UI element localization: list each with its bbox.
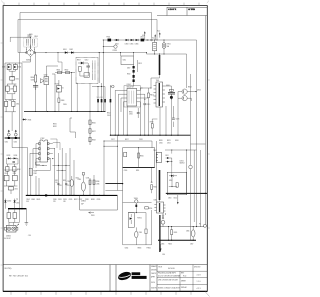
svg-text:J 80: J 80 [162, 254, 165, 256]
snubber parts [77, 60, 95, 80]
varistor VA801 [115, 39, 125, 46]
svg-text:C833: C833 [63, 199, 67, 201]
svg-text:D851: D851 [165, 155, 169, 157]
svg-text:APPR: APPR [151, 275, 155, 278]
svg-text:R807: R807 [77, 60, 81, 62]
net flag AC1 arrow [157, 29, 160, 37]
svg-text:1 1 0: 1 1 0 [197, 281, 201, 283]
svg-text:RT801: RT801 [113, 50, 118, 52]
svg-text:D810: D810 [175, 140, 179, 142]
standby ground bus [158, 227, 196, 241]
rectifier D860 circle [160, 213, 204, 227]
svg-text:RY850: RY850 [137, 217, 141, 219]
svg-text:C865: C865 [161, 243, 165, 245]
LF801 windings [26, 34, 34, 46]
title block outline [3, 265, 207, 292]
Samsung Electro-Mechanics logo [117, 270, 147, 281]
right long verticals [187, 144, 201, 240]
svg-text:C818: C818 [139, 139, 143, 141]
svg-text:D835: D835 [16, 203, 20, 205]
diode D803 [125, 39, 130, 46]
revision table (top right) [167, 7, 207, 15]
svg-text:R856: R856 [149, 208, 153, 210]
svg-text:F801: F801 [107, 37, 111, 39]
svg-text:R827: R827 [92, 131, 96, 133]
svg-text:DESIGN: DESIGN [151, 270, 156, 272]
transformer T802 body [154, 202, 165, 213]
thermistor RT801 [103, 40, 117, 53]
svg-text:C835: C835 [69, 199, 73, 201]
capacitor marks mid rails [57, 184, 67, 185]
svg-text:D803: D803 [125, 43, 129, 45]
svg-text:CN801: CN801 [81, 201, 86, 203]
svg-text:D802: D802 [115, 43, 119, 45]
labels mid texts [53, 104, 67, 128]
svg-text:Q802: Q802 [197, 90, 201, 92]
start resistor chain [58, 53, 90, 112]
capacitor C804 label [27, 34, 38, 37]
svg-text:C856: C856 [13, 173, 17, 175]
IC802 wiring left [30, 144, 39, 169]
svg-text:DC-DV/ S.M CIRCUIT DIAGRAM: DC-DV/ S.M CIRCUIT DIAGRAM [158, 275, 181, 278]
svg-text:R826: R826 [92, 122, 96, 124]
capacitor C816 [137, 108, 140, 118]
choke L831 [8, 187, 18, 194]
svg-text:C821: C821 [167, 142, 171, 144]
shunt regulator IC802 KA431 [39, 138, 49, 162]
wire bridge feed [10, 37, 34, 50]
svg-text:PC801: PC801 [55, 83, 60, 85]
svg-text:C851: C851 [16, 103, 20, 105]
svg-text:R834: R834 [17, 169, 21, 171]
wire output bus to opto [12, 139, 28, 148]
resistor pads row [97, 97, 112, 102]
svg-text:C838: C838 [85, 199, 89, 201]
svg-text:C852: C852 [5, 141, 9, 143]
wire bridge DC+ output [18, 45, 64, 62]
svg-text:R817: R817 [125, 139, 129, 141]
labels under opto bus [26, 199, 40, 203]
svg-text:R828: R828 [92, 140, 96, 142]
border tick marks left [1, 1, 4, 266]
svg-text:R865: R865 [174, 232, 178, 234]
svg-text:C850: C850 [9, 100, 13, 102]
wire aux feed [103, 141, 152, 196]
svg-text:C836: C836 [96, 183, 100, 185]
svg-text:SIZE A4: SIZE A4 [181, 286, 187, 289]
wire AC lower run [155, 54, 187, 89]
svg-text:C864: C864 [125, 248, 129, 250]
wire T801 primary connections [140, 40, 164, 89]
svg-text:R843: R843 [31, 199, 35, 201]
svg-text:MODEL/ CGN5407L SCALE/ NS: MODEL/ CGN5407L SCALE/ NS [158, 287, 180, 290]
svg-text:R83: R83 [55, 180, 58, 182]
capacitor C823 [150, 118, 180, 135]
svg-text:C832: C832 [67, 181, 71, 183]
svg-text:D801: D801 [63, 49, 67, 51]
varistor VA801 [153, 40, 157, 54]
svg-text:A7 ERM: A7 ERM [188, 8, 195, 11]
choke L801 [140, 37, 197, 42]
svg-text:LIVE: LIVE [142, 35, 145, 37]
svg-text:C83: C83 [59, 185, 62, 187]
svg-text:T801: T801 [156, 80, 160, 82]
svg-text:J 90: J 90 [28, 235, 31, 237]
ground bus left thick [5, 206, 26, 210]
svg-text:IC851: IC851 [180, 160, 184, 162]
svg-text:C814: C814 [107, 115, 111, 117]
svg-text:C831: C831 [58, 199, 62, 201]
svg-text:C834: C834 [86, 178, 90, 180]
svg-text:R819: R819 [150, 121, 154, 123]
svg-text:5.1 5.1 5.1: 5.1 5.1 5.1 [97, 97, 103, 99]
schottky D830 [2, 65, 11, 72]
svg-text:P801: P801 [91, 215, 95, 217]
svg-text:R851: R851 [136, 170, 140, 172]
IC801 surrounding wires [110, 85, 148, 135]
sheet outer frame [3, 6, 207, 292]
svg-text:4 2 3: 4 2 3 [197, 288, 201, 290]
svg-text:R821: R821 [167, 140, 171, 142]
svg-text:C855: C855 [4, 173, 8, 175]
svg-text:R838: R838 [91, 199, 95, 201]
svg-text:C860: C860 [124, 170, 128, 172]
diode D804 [129, 39, 134, 46]
resistor R841 R842 pack [29, 168, 37, 195]
standby winding bold riser [157, 141, 161, 202]
svg-text:D807: D807 [127, 67, 131, 69]
AC inlet connector CN800 [4, 222, 19, 240]
svg-text:L801: L801 [140, 37, 144, 39]
cap C848 C849 [6, 84, 17, 100]
bridge AC terminals [26, 52, 36, 54]
ground arrow bottom right [160, 244, 165, 256]
svg-text:R814: R814 [150, 94, 154, 96]
svg-text:C83: C83 [67, 185, 70, 187]
svg-text:SCH E: SCH E [168, 268, 175, 270]
svg-text:CHK/ J.H.KIM DSN/ S.W.LEE: CHK/ J.H.KIM DSN/ S.W.LEE [158, 280, 178, 282]
svg-text:R836: R836 [96, 181, 100, 183]
svg-text:C820: C820 [159, 142, 163, 144]
svg-text:R850: R850 [140, 155, 144, 157]
fuse FB801 circle [189, 165, 193, 169]
labels mid rail columns [55, 178, 89, 187]
wire snubber bottom run [92, 83, 105, 112]
relay parts inside degauss box [128, 212, 147, 245]
labels under GND2 [53, 199, 100, 203]
diode D801 [63, 49, 70, 54]
title block texts [151, 265, 201, 290]
svg-text:C806: C806 [31, 79, 35, 81]
labels under standby bus [161, 243, 194, 245]
wire secondary rail top [165, 150, 197, 154]
border tick marks bottom [11, 292, 210, 297]
svg-text:C804: C804 [27, 34, 31, 36]
svg-text:R841: R841 [33, 170, 37, 172]
cap C850 C851 [4, 100, 19, 112]
svg-text:D833: D833 [7, 155, 11, 157]
svg-text:R808: R808 [28, 119, 32, 121]
svg-text:D805: D805 [130, 43, 134, 45]
svg-text:TITLE: TITLE [158, 267, 162, 269]
zener ZD830 LED830 [4, 198, 19, 206]
svg-text:SUWON: SUWON [151, 288, 156, 290]
svg-text:C853: C853 [168, 197, 172, 199]
wire AC line top run [18, 13, 206, 225]
lamp LP801 [162, 40, 171, 54]
svg-text:NOTE): NOTE) [5, 268, 12, 270]
labels under GND1 bus [111, 139, 179, 145]
capacitor C815 [143, 104, 150, 135]
svg-text:L830: L830 [16, 79, 19, 81]
svg-text:TH851: TH851 [146, 248, 151, 250]
svg-text:AC2: AC2 [157, 29, 160, 32]
regulator box [167, 166, 187, 195]
svg-text:DRAWN: DRAWN [151, 265, 156, 268]
svg-text:C863: C863 [139, 232, 143, 234]
component R856 beside box [145, 207, 153, 210]
electrolytic cap C832 [67, 176, 74, 195]
svg-text:R802: R802 [65, 69, 69, 71]
heater rect diodes pair D851 [165, 155, 172, 166]
svg-text:D852: D852 [169, 180, 173, 182]
connector box CN801 [80, 195, 118, 210]
svg-text:ZD830: ZD830 [7, 201, 11, 203]
svg-text:R806: R806 [61, 100, 65, 102]
choke L830 [10, 77, 19, 85]
svg-text:C823: C823 [176, 119, 180, 121]
svg-text:TH850: TH850 [134, 198, 138, 200]
svg-text:R832: R832 [53, 126, 57, 128]
wire bulk rail vertical [99, 53, 103, 112]
net arrow AC inlet [16, 224, 18, 227]
clamp box RCD [120, 52, 134, 64]
svg-text:P2: P2 [199, 223, 201, 225]
border tick marks top [4, 3, 199, 6]
wire long vertical feedback [105, 135, 123, 245]
svg-text:C841: C841 [33, 173, 37, 175]
earth ground Y-cap stub [25, 209, 31, 238]
secondary rectifier cluster caps [165, 85, 175, 135]
primary winding bold riser [151, 55, 160, 88]
notes box text [5, 268, 28, 277]
electrolytic C866 [186, 227, 195, 241]
degauss box [123, 210, 152, 245]
svg-text:D802: D802 [69, 49, 73, 51]
secondary rail verticals to outputs [52, 148, 74, 195]
svg-text:DWG NO: DWG NO [194, 267, 201, 269]
diode D802 [69, 49, 146, 54]
svg-text:R83: R83 [63, 180, 66, 182]
electrolytic cap C834 [77, 172, 85, 195]
resistor R865 [171, 227, 178, 241]
shield bar lower [159, 215, 161, 252]
svg-text:P/No:BN41-00123A SMPS: P/No:BN41-00123A SMPS [158, 271, 176, 274]
svg-text:R803: R803 [34, 36, 38, 38]
svg-text:R866: R866 [168, 243, 172, 245]
resistor R852 [151, 167, 158, 201]
IC851 label block [180, 160, 185, 164]
svg-text:IC802: IC802 [40, 138, 44, 140]
svg-text:R812: R812 [107, 113, 111, 115]
arrow to main board [89, 212, 95, 217]
svg-text:C839: C839 [97, 199, 101, 201]
svg-text:R801: R801 [57, 69, 61, 71]
IC801 KA5Q0765 [123, 84, 140, 107]
bulk cap bus wire [24, 111, 106, 112]
svg-text:4 2 8: 4 2 8 [197, 275, 201, 277]
svg-text:R820: R820 [159, 140, 163, 142]
resistor R850 inside box [138, 147, 144, 167]
test point TP801 [110, 85, 114, 88]
bulk capacitor C806 [31, 75, 39, 90]
fuse F801 [103, 37, 115, 42]
svg-text:C832: C832 [75, 178, 79, 180]
svg-text:C842: C842 [26, 199, 30, 201]
labels under degauss box [125, 248, 151, 250]
svg-text:LP801: LP801 [167, 44, 171, 46]
net flag B+ arrow [142, 31, 156, 41]
svg-text:CHECK: CHECK [151, 273, 156, 275]
svg-text:25V: 25V [53, 201, 56, 203]
svg-text:R837: R837 [74, 199, 78, 201]
svg-text:R804: R804 [31, 77, 35, 79]
svg-text:R845: R845 [37, 199, 41, 201]
svg-text:C853: C853 [14, 141, 18, 143]
svg-text:D834: D834 [14, 155, 18, 157]
svg-text:C866: C866 [186, 231, 190, 233]
border tick marks right [207, 1, 210, 229]
svg-text:C848: C848 [10, 88, 14, 90]
transistor Q802 Q803 circles [178, 87, 201, 101]
stacked resistors R826-828 [89, 112, 96, 146]
svg-text:D808: D808 [166, 85, 170, 87]
svg-text:R863: R863 [138, 248, 142, 250]
svg-text:D806: D806 [135, 43, 139, 45]
diode D811 sense [22, 119, 31, 122]
svg-text:RE : NO CIRCUIT 101: RE : NO CIRCUIT 101 [9, 275, 28, 277]
secondary ground bus GND2 [52, 195, 117, 196]
top right output box [123, 148, 155, 168]
svg-text:L831: L831 [14, 188, 18, 190]
svg-text:R824: R824 [188, 87, 192, 89]
svg-text:W.1/.: W.1/. [183, 275, 187, 277]
mosfet Q801 drain wire [148, 88, 151, 89]
diode D832 pair with flags [7, 130, 17, 136]
transformer T801 [154, 80, 166, 107]
svg-text:R815: R815 [129, 111, 133, 113]
left column long wires [11, 112, 13, 131]
svg-text:C830: C830 [53, 199, 57, 201]
svg-text:CN800: CN800 [6, 236, 11, 238]
rectifier row D833 D834 [7, 155, 18, 164]
svg-text:C817: C817 [111, 139, 115, 141]
svg-text:50V: 50V [26, 201, 29, 203]
svg-text:T802: T802 [153, 150, 157, 152]
transformer T802 primary box [153, 150, 162, 162]
thyristor pack Q800 [40, 66, 58, 112]
svg-text:C811: C811 [123, 59, 127, 61]
svg-text:R813: R813 [138, 63, 142, 65]
svg-text:ACL: ACL [152, 37, 155, 40]
svg-text:Q800: Q800 [44, 74, 48, 76]
labels under output bus [5, 141, 18, 143]
svg-text:C809: C809 [63, 104, 67, 106]
svg-text:C816: C816 [129, 114, 133, 116]
output bus left thick [5, 136, 20, 139]
svg-text:S1: S1 [62, 87, 64, 89]
svg-text:C837: C837 [79, 199, 83, 201]
svg-text:16V: 16V [63, 201, 66, 203]
svg-text:IC801: IC801 [127, 84, 131, 86]
snubber dashed box SN801 [76, 58, 98, 84]
ground arrow below regulator box [168, 195, 179, 205]
filter caps row2 C855 C856 [4, 170, 17, 186]
wire feedback step [70, 118, 75, 138]
svg-text:S4P: S4P [81, 203, 84, 205]
resistor R836 [89, 175, 100, 195]
connector pin circle [199, 223, 206, 227]
primary ground bus GND1 [110, 135, 191, 136]
svg-text:C854: C854 [173, 197, 177, 199]
EMI filter LF801 dashed box [24, 38, 37, 47]
node bridge output junction [99, 52, 104, 53]
svg-text:REV: REV [181, 272, 184, 274]
photocoupler PC801 [55, 80, 64, 98]
RC pair below bus [7, 209, 17, 223]
IC802 wiring right [36, 139, 61, 170]
wire secondary top run [5, 63, 22, 100]
svg-text:S.E.M: S.E.M [151, 282, 156, 284]
resistor R814 [147, 88, 154, 135]
zener chain D807 [127, 60, 142, 87]
svg-text:C810: C810 [85, 60, 89, 62]
bridge rectifier BD801 [26, 49, 34, 62]
wire rectifier join [9, 71, 15, 76]
wires right verticals secondary [160, 40, 206, 227]
svg-text:R831: R831 [53, 123, 57, 125]
heater output bold line [166, 193, 207, 194]
diode D805 [134, 39, 139, 46]
wire left verticals mid [19, 49, 36, 222]
svg-text:D830: D830 [2, 66, 6, 68]
svg-text:R810: R810 [127, 73, 131, 75]
svg-text:SHEET: SHEET [181, 281, 186, 283]
svg-text:C867: C867 [190, 243, 194, 245]
resistor row below bridge R801 R802 [55, 69, 75, 73]
svg-text:D831: D831 [18, 66, 22, 68]
wires opto area to bus [26, 148, 52, 197]
svg-text:4-25-97 R: 4-25-97 R [168, 9, 177, 11]
posistor TH850 [123, 198, 152, 213]
node AC-L junction dots top [103, 39, 148, 40]
labels under diode row [107, 111, 133, 116]
cap C860 inside box [124, 152, 140, 172]
resistor R806 [58, 98, 65, 112]
schottky D831 [13, 65, 21, 72]
diode row D836 D837 [6, 164, 21, 175]
